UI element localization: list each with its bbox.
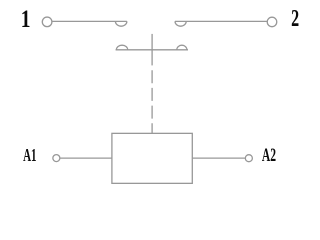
wire from right fixed contact to terminal 2	[175, 20, 267, 22]
actuator stem (solid)	[151, 34, 153, 66]
svg-text:A2: A2	[262, 145, 276, 166]
terminal circle A2	[245, 155, 252, 162]
svg-text:2: 2	[291, 6, 299, 32]
left bridge contact (semicircle above bar)	[116, 45, 127, 50]
left fixed contact (semicircle below wire)	[115, 21, 127, 26]
moving bridge bar	[116, 49, 188, 51]
right bridge contact (semicircle above bar)	[177, 45, 187, 50]
right fixed contact (semicircle below wire)	[175, 21, 186, 26]
terminal circle A1	[53, 155, 60, 162]
wire A1 to coil	[60, 157, 112, 159]
terminal circle 2	[267, 17, 277, 27]
svg-text:A1: A1	[23, 146, 36, 165]
wire from terminal 1 to left fixed contact	[52, 20, 127, 22]
coil box	[112, 133, 192, 183]
actuator link (dashed) to coil	[151, 70, 153, 133]
svg-text:1: 1	[21, 5, 31, 33]
terminal circle 1	[42, 17, 52, 27]
wire coil to A2	[192, 157, 245, 159]
